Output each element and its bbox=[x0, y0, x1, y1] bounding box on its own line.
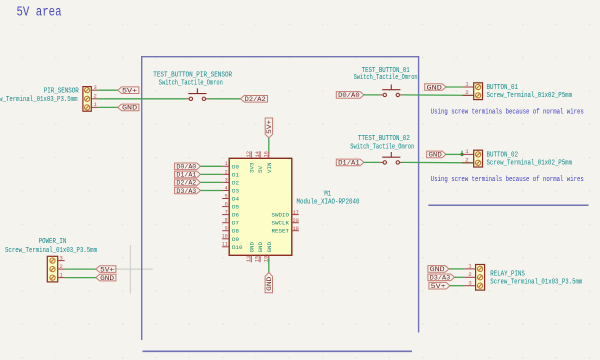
svg-text:D3/A3: D3/A3 bbox=[176, 188, 196, 195]
svg-text:RELAY_PINS: RELAY_PINS bbox=[490, 271, 525, 279]
svg-text:5: 5 bbox=[225, 193, 228, 199]
svg-text:D2/A2: D2/A2 bbox=[245, 96, 266, 103]
svg-text:D0/A0: D0/A0 bbox=[338, 92, 360, 99]
svg-text:D2: D2 bbox=[232, 179, 239, 186]
svg-text:D10: D10 bbox=[232, 244, 243, 251]
svg-text:10: 10 bbox=[222, 234, 228, 240]
svg-text:9: 9 bbox=[225, 226, 228, 232]
svg-text:Using screw terminals because: Using screw terminals because of normal … bbox=[431, 108, 584, 116]
svg-text:D9: D9 bbox=[232, 236, 239, 243]
svg-text:D3/A3: D3/A3 bbox=[430, 275, 451, 282]
svg-text:D6: D6 bbox=[232, 212, 239, 219]
svg-text:1: 1 bbox=[465, 81, 469, 88]
svg-text:5V area: 5V area bbox=[17, 6, 62, 21]
svg-text:4: 4 bbox=[225, 185, 228, 191]
svg-text:8: 8 bbox=[225, 218, 228, 224]
svg-text:16: 16 bbox=[264, 151, 270, 157]
svg-text:2: 2 bbox=[465, 89, 469, 96]
svg-text:1: 1 bbox=[225, 161, 228, 167]
svg-text:2: 2 bbox=[60, 264, 63, 270]
svg-text:BUTTON_01: BUTTON_01 bbox=[487, 84, 519, 92]
svg-text:2: 2 bbox=[225, 169, 228, 175]
svg-text:PIR_SENSOR: PIR_SENSOR bbox=[44, 87, 80, 95]
svg-text:3: 3 bbox=[94, 85, 97, 91]
svg-text:Screw_Terminal_01x02_P5mm: Screw_Terminal_01x02_P5mm bbox=[487, 92, 573, 100]
svg-text:5V+: 5V+ bbox=[431, 283, 446, 290]
svg-text:3: 3 bbox=[225, 177, 228, 183]
svg-text:D0: D0 bbox=[232, 163, 239, 170]
svg-text:TTEST_BUTTON_02: TTEST_BUTTON_02 bbox=[358, 135, 410, 143]
svg-text:D2/A2: D2/A2 bbox=[176, 180, 196, 187]
svg-text:Module_XIAO-RP2040: Module_XIAO-RP2040 bbox=[297, 199, 360, 207]
svg-text:POWER_IN: POWER_IN bbox=[39, 238, 67, 246]
svg-text:SWCLK: SWCLK bbox=[272, 220, 290, 227]
svg-text:RESET: RESET bbox=[272, 228, 290, 235]
svg-text:GND: GND bbox=[266, 241, 273, 252]
svg-text:GND: GND bbox=[248, 241, 255, 252]
svg-text:3V3: 3V3 bbox=[248, 163, 255, 173]
svg-text:2: 2 bbox=[465, 156, 469, 163]
svg-text:12: 12 bbox=[246, 151, 252, 157]
svg-text:2: 2 bbox=[94, 94, 97, 100]
svg-text:20: 20 bbox=[293, 218, 299, 224]
svg-text:D7: D7 bbox=[232, 220, 239, 227]
svg-text:15: 15 bbox=[255, 256, 261, 262]
svg-text:D1: D1 bbox=[232, 171, 240, 178]
svg-text:17: 17 bbox=[293, 210, 299, 216]
svg-text:D5: D5 bbox=[232, 204, 239, 211]
svg-text:TEST_BUTTON_PIR_SENSOR: TEST_BUTTON_PIR_SENSOR bbox=[153, 72, 233, 80]
svg-text:3: 3 bbox=[468, 280, 472, 287]
svg-text:1: 1 bbox=[94, 102, 97, 108]
svg-text:5V: 5V bbox=[257, 165, 264, 173]
svg-text:3: 3 bbox=[60, 255, 63, 261]
svg-text:GND: GND bbox=[122, 105, 137, 112]
svg-text:Using screw terminals because: Using screw terminals because of normal … bbox=[431, 176, 584, 184]
svg-text:D3: D3 bbox=[232, 188, 239, 195]
svg-text:14: 14 bbox=[255, 151, 261, 157]
svg-text:6: 6 bbox=[225, 202, 228, 208]
svg-text:SWDIO: SWDIO bbox=[272, 211, 290, 218]
svg-text:5V+: 5V+ bbox=[100, 266, 114, 273]
svg-text:D1/A1: D1/A1 bbox=[176, 172, 196, 179]
svg-text:Switch_Tactile_Omron: Switch_Tactile_Omron bbox=[350, 144, 414, 152]
svg-text:Screw_Terminal_01x02_P5mm: Screw_Terminal_01x02_P5mm bbox=[487, 159, 573, 167]
svg-text:VIN: VIN bbox=[266, 163, 273, 174]
svg-text:1: 1 bbox=[465, 148, 469, 155]
svg-text:1: 1 bbox=[60, 272, 63, 278]
svg-text:GND: GND bbox=[266, 277, 273, 291]
svg-text:Screw_Terminal_01x03_P3.5mm: Screw_Terminal_01x03_P3.5mm bbox=[490, 279, 582, 287]
svg-text:11: 11 bbox=[222, 242, 228, 248]
svg-text:D8: D8 bbox=[232, 228, 239, 235]
svg-text:5V+: 5V+ bbox=[122, 88, 137, 95]
svg-text:Switch_Tactile_Omron: Switch_Tactile_Omron bbox=[354, 74, 418, 82]
svg-text:Screw_Terminal_01x03_P3.5mm: Screw_Terminal_01x03_P3.5mm bbox=[0, 96, 78, 104]
svg-text:2: 2 bbox=[468, 271, 472, 278]
svg-text:7: 7 bbox=[225, 210, 228, 216]
svg-text:GND: GND bbox=[257, 241, 264, 252]
svg-text:Screw_Terminal_01x03_P3.5mm: Screw_Terminal_01x03_P3.5mm bbox=[5, 247, 97, 255]
svg-text:BUTTON_02: BUTTON_02 bbox=[487, 151, 519, 159]
svg-text:18: 18 bbox=[293, 226, 299, 232]
svg-text:Switch_Tactile_Omron: Switch_Tactile_Omron bbox=[159, 80, 223, 88]
svg-text:GND: GND bbox=[429, 152, 442, 159]
svg-text:D1/A1: D1/A1 bbox=[338, 160, 360, 167]
svg-text:13: 13 bbox=[246, 256, 252, 262]
svg-text:GND: GND bbox=[430, 266, 445, 273]
svg-text:1: 1 bbox=[468, 263, 472, 270]
svg-text:GND: GND bbox=[100, 275, 114, 282]
svg-text:D4: D4 bbox=[232, 196, 240, 203]
svg-text:D0/A0: D0/A0 bbox=[176, 164, 196, 171]
svg-text:GND: GND bbox=[427, 84, 442, 91]
svg-text:5V+: 5V+ bbox=[266, 120, 273, 134]
svg-text:M1: M1 bbox=[324, 190, 331, 198]
